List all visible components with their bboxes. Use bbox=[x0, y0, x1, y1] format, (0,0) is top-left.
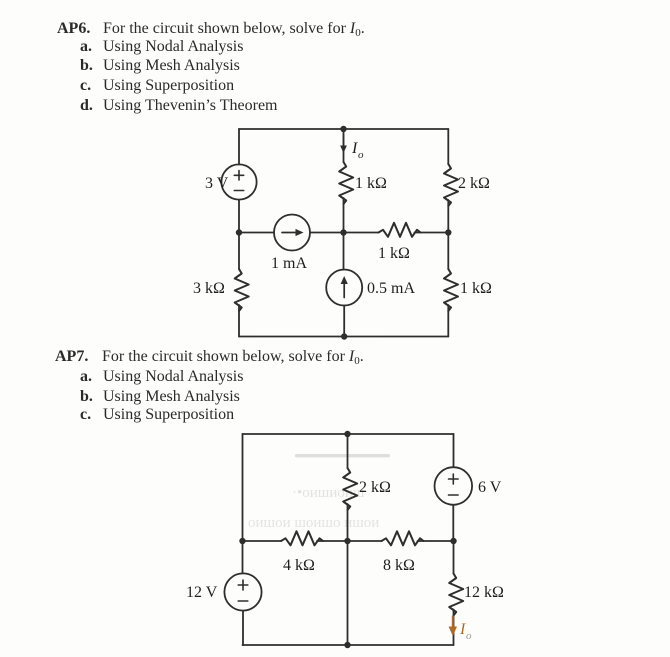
svg-text:8 kΩ: 8 kΩ bbox=[383, 557, 415, 574]
wire: right branch below middle bbox=[447, 233, 449, 270]
label: 12 kΩ bbox=[464, 584, 504, 601]
bleed-through smudge (scan artifact) bbox=[295, 454, 390, 457]
node: centre junction dot bbox=[340, 229, 346, 235]
label: 0.5 mA bbox=[367, 280, 415, 297]
wire: middle rail left segment bbox=[239, 232, 274, 234]
svg-text:12 V: 12 V bbox=[186, 584, 218, 601]
wire: middle branch top segment with Io bbox=[343, 129, 345, 162]
node: left middle junction dot bbox=[236, 229, 242, 235]
svg-text:I: I bbox=[351, 140, 358, 157]
voltage source 12 V bbox=[224, 573, 261, 610]
wire: middle branch to centre node (circuit 2) bbox=[347, 504, 349, 541]
wire: left branch middle segment bbox=[238, 200, 240, 269]
svg-text:1 mA: 1 mA bbox=[271, 255, 307, 272]
problem AP7 heading bbox=[0, 348, 1, 350]
label: 1 kΩ (right bottom) bbox=[460, 280, 492, 297]
item c (AP7) bbox=[0, 406, 1, 408]
svg-text:o: o bbox=[358, 149, 364, 161]
node: left middle junction dot (circuit 2) bbox=[239, 538, 245, 544]
item b (AP7) bbox=[0, 388, 1, 390]
svg-text:3 kΩ: 3 kΩ bbox=[193, 280, 225, 297]
label: 1 mA bbox=[271, 255, 307, 272]
item a (AP7) bbox=[0, 368, 1, 370]
resistor 8 kΩ bbox=[382, 531, 424, 545]
wire: left branch upper segment bbox=[238, 129, 240, 165]
wire: middle rail centre segment (circuit 2) bbox=[317, 540, 382, 542]
item b (AP6) bbox=[0, 57, 1, 59]
wire: middle branch bottom segment bbox=[343, 306, 345, 337]
node: bottom junction dot (circuit 2) bbox=[344, 642, 350, 648]
label: 1 kΩ (horizontal) bbox=[378, 245, 410, 262]
wire: top rail (circuit 2) bbox=[243, 433, 454, 435]
wire: middle branch lower segment (circuit 2) bbox=[347, 541, 349, 645]
resistor 1 kΩ (horizontal, middle rail) bbox=[379, 223, 421, 237]
wire: bottom rail (circuit 1) bbox=[239, 336, 448, 338]
node: centre junction dot (circuit 2) bbox=[344, 538, 350, 544]
wire: middle branch upper segment (circuit 2) bbox=[347, 434, 349, 468]
svg-text:6 V: 6 V bbox=[478, 479, 502, 496]
svg-text:2 kΩ: 2 kΩ bbox=[359, 479, 391, 496]
svg-text:o: o bbox=[466, 630, 472, 642]
wire: top rail (circuit 1) bbox=[239, 128, 448, 130]
node: right middle junction dot bbox=[445, 229, 451, 235]
wire: middle rail left segment (circuit 2) bbox=[243, 540, 282, 542]
svg-text:1 kΩ: 1 kΩ bbox=[460, 280, 492, 297]
problem AP6 heading bbox=[0, 20, 1, 22]
label: 1 kΩ (middle top) bbox=[355, 175, 387, 192]
svg-text:4 kΩ: 4 kΩ bbox=[283, 557, 315, 574]
resistor 4 kΩ bbox=[281, 531, 323, 545]
label: 6 V bbox=[478, 479, 502, 496]
resistor 1 kΩ (middle top branch) bbox=[339, 162, 353, 204]
wire: right branch lower segment bbox=[447, 305, 449, 337]
wire: middle branch below centre node bbox=[343, 233, 345, 270]
wire: right branch top stub (circuit 2) bbox=[453, 434, 455, 467]
wire: right branch below middle (circuit 2) bbox=[453, 541, 455, 574]
wire: right branch middle segment (circuit 2) bbox=[452, 505, 454, 541]
wire: middle rail right segment bbox=[415, 232, 449, 234]
resistor 1 kΩ (right bottom branch) bbox=[444, 269, 458, 311]
wire: right branch middle segment bbox=[447, 200, 449, 233]
current arrow Io (circuit 1) bbox=[340, 135, 347, 153]
voltage source 6 V bbox=[435, 467, 473, 505]
label: Io (circuit 1) bbox=[351, 140, 364, 161]
resistor 3 kΩ (left branch) bbox=[235, 269, 249, 311]
voltage source 3 V bbox=[221, 164, 256, 199]
label: 8 kΩ bbox=[383, 557, 415, 574]
wire: right branch upper segment bbox=[447, 129, 449, 164]
svg-text:1 kΩ: 1 kΩ bbox=[355, 175, 387, 192]
node: top junction dot (circuit 2) bbox=[344, 431, 350, 437]
label: 3 V bbox=[205, 175, 229, 192]
wire: right branch lower segment (circuit 2) bbox=[453, 610, 455, 646]
wire: left branch lower segment (circuit 2) bbox=[242, 611, 244, 645]
current source 1 mA bbox=[274, 215, 310, 251]
wire: left branch lower segment bbox=[238, 305, 240, 337]
wire: bottom rail (circuit 2) bbox=[243, 644, 454, 646]
wire: left branch upper segment (circuit 2) bbox=[242, 434, 244, 573]
bleed-through faint text row 2 (scan artifact) bbox=[248, 515, 379, 531]
wire: middle branch segment to centre node bbox=[343, 198, 345, 233]
label: 2 kΩ (circuit 2) bbox=[359, 479, 391, 496]
svg-text:3 V: 3 V bbox=[205, 175, 229, 192]
label: Io (circuit 2, orange) bbox=[459, 621, 472, 642]
resistor 2 kΩ (middle branch) bbox=[343, 468, 357, 510]
node: top-middle junction dot (circuit 1) bbox=[340, 126, 346, 132]
item d (AP6) bbox=[0, 97, 1, 99]
node: bottom junction dot (circuit 1) bbox=[341, 333, 347, 339]
svg-text:1 kΩ: 1 kΩ bbox=[378, 245, 410, 262]
current arrow Io (circuit 2, orange) bbox=[449, 617, 457, 637]
svg-text:2 kΩ: 2 kΩ bbox=[458, 175, 490, 192]
label: 3 kΩ bbox=[193, 280, 225, 297]
wire: middle rail centre segment bbox=[310, 232, 379, 234]
label: 12 V bbox=[186, 584, 218, 601]
resistor 2 kΩ (right top branch) bbox=[444, 164, 458, 206]
item c (AP6) bbox=[0, 77, 1, 79]
svg-text:0.5 mA: 0.5 mA bbox=[367, 280, 415, 297]
svg-text:12 kΩ: 12 kΩ bbox=[464, 584, 504, 601]
current source 0.5 mA bbox=[326, 270, 362, 306]
resistor 12 kΩ bbox=[449, 574, 463, 616]
node: right middle junction dot (circuit 2) bbox=[450, 538, 456, 544]
svg-text:оишои шоишо ишои: оишои шоишо ишои bbox=[248, 515, 379, 531]
svg-text:·•оишиоиш: ·•оишиоиш bbox=[292, 485, 365, 501]
svg-text:I: I bbox=[459, 621, 466, 638]
label: 2 kΩ bbox=[458, 175, 490, 192]
bleed-through faint text row 1 (scan artifact) bbox=[292, 485, 365, 501]
label: 4 kΩ bbox=[283, 557, 315, 574]
wire: middle rail right segment (circuit 2) bbox=[418, 540, 454, 542]
item a (AP6) bbox=[0, 38, 1, 40]
